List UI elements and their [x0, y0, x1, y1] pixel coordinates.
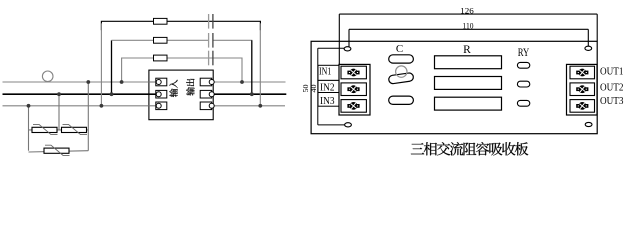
hole gray circle [396, 66, 407, 77]
mounting hole H2 [585, 46, 592, 50]
wire phase line L3 right segment [209, 105, 285, 107]
varistor RV3 [44, 145, 70, 155]
terminal cell OUT1 [570, 66, 595, 79]
mounting hole H4 [585, 122, 592, 126]
wire phase line L1 left segment [3, 81, 157, 83]
varistor RV2 [62, 124, 88, 134]
varistor footprint RY2 [517, 81, 529, 87]
terminal output 5 of S1 [200, 90, 214, 98]
wire snubber branch 3 with verticals to L1 [122, 58, 242, 82]
wire branch 1 right vertical to L3 [259, 23, 261, 106]
resistor footprint R3 [435, 97, 502, 110]
svg-text:IN1: IN1 [319, 66, 331, 78]
node E junction dot [110, 92, 114, 96]
wire phase line L2 right segment [209, 93, 286, 95]
wire phase line L2 left segment [3, 93, 157, 95]
terminal input 1 of S1 [149, 78, 167, 86]
resistor footprint R1 [435, 56, 502, 69]
capacitor C3 [209, 51, 213, 66]
screw IN1 [347, 69, 359, 77]
node F junction dot [120, 80, 124, 84]
terminal input 2 of S1 [149, 90, 167, 98]
wire phase line L1 right segment [209, 81, 286, 83]
terminal output 6 of S1 [200, 102, 214, 110]
caption sanxiang jiaoliu zurong xishouban [411, 142, 528, 155]
screw IN2 [347, 85, 359, 93]
node C junction dot [86, 80, 90, 84]
terminal cell OUT3 [570, 100, 595, 113]
terminal cell IN3 [341, 100, 366, 113]
varistor RV1 [32, 124, 58, 134]
dimension ext top-left hole horizontal [318, 47, 346, 49]
indicator meter P1 circle on L1 [42, 71, 53, 82]
svg-text:RY: RY [518, 47, 530, 59]
dimension ext bottom-left hole horizontal [318, 124, 350, 126]
svg-text:C: C [396, 43, 403, 55]
dimension line 126 [339, 14, 597, 64]
terminal cell IN1 [341, 66, 366, 79]
screw OUT3 [576, 102, 588, 110]
svg-text:OUT1: OUT1 [600, 67, 624, 78]
dimension line 40 vertical [317, 48, 319, 125]
node K junction dot [258, 104, 262, 108]
svg-text:R: R [463, 44, 471, 56]
node A junction dot [27, 104, 31, 108]
wire varistor net vertical A from L3 [28, 106, 30, 151]
terminal cell IN2 [341, 83, 366, 96]
terminal block OUT outline [567, 64, 598, 115]
varistor footprint RY3 [517, 100, 529, 106]
varistor footprint RY1 [517, 62, 529, 68]
wire varistor net vertical C from L1 [87, 82, 89, 151]
terminal output 4 of S1 [200, 78, 214, 86]
capacitor C2 [209, 33, 213, 48]
screw OUT2 [576, 85, 588, 93]
terminal block IN outline [339, 64, 370, 115]
svg-text:IN3: IN3 [320, 95, 335, 107]
node G junction dot [240, 80, 244, 84]
node B junction dot [57, 92, 61, 96]
label shuchu (output) rotated [186, 79, 194, 96]
wire snubber branch 1 horizontal [101, 21, 260, 30]
svg-text:110: 110 [463, 22, 474, 31]
wire branch 2 right vertical to L2 [251, 40, 253, 94]
wire varistor net vertical B from L2 [58, 94, 60, 130]
mounting hole H3 [345, 123, 352, 127]
resistor R2 [154, 37, 168, 43]
PCB board outline [311, 41, 597, 133]
capacitor footprint C2 tilted [388, 72, 414, 84]
node H junction dot [250, 92, 254, 96]
resistor R1 [154, 18, 168, 24]
terminal input 3 of S1 [149, 102, 167, 110]
wire branch 2 right segment [213, 39, 252, 41]
resistor R3 [154, 55, 168, 61]
wire branch 1 left vertical to L3 [100, 23, 102, 106]
label shuru (input) rotated [169, 80, 177, 97]
terminal cell OUT2 [570, 83, 595, 96]
svg-text:OUT3: OUT3 [600, 95, 624, 107]
wire phase line L3 left segment [3, 105, 157, 107]
screw OUT1 [576, 69, 588, 77]
svg-text:126: 126 [460, 6, 474, 15]
svg-text:OUT2: OUT2 [600, 81, 624, 93]
mounting hole H1 [344, 47, 351, 51]
capacitor footprint C1 [389, 55, 414, 63]
wire varistor row 2 [29, 151, 89, 152]
capacitor footprint C3 [389, 96, 414, 104]
capacitor C1 [209, 14, 213, 29]
resistor footprint R2 [435, 77, 502, 90]
wire varistor row 1 [29, 129, 89, 131]
wire snubber branch 2 with verticals to L2 [111, 40, 113, 94]
dimension line 110 [349, 29, 588, 50]
node D junction dot [100, 104, 104, 108]
IN labels table [318, 65, 339, 106]
svg-text:40: 40 [309, 84, 318, 92]
svg-text:IN2: IN2 [320, 81, 335, 93]
screw IN3 [347, 102, 359, 110]
wire branch 2 left-middle segment [112, 39, 209, 41]
switch box S1 outline [149, 70, 213, 120]
